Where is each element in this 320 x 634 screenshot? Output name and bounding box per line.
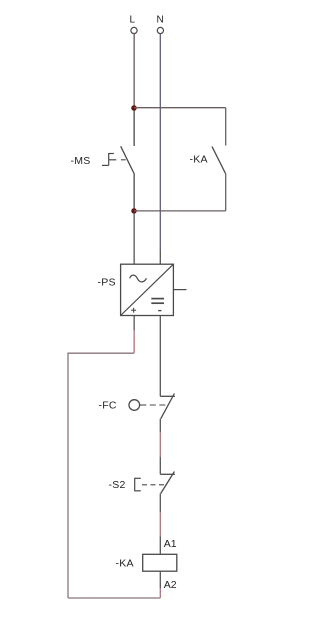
float switch -FC contact bar [160, 395, 175, 397]
switch -MS dashed link [121, 159, 126, 161]
svg-text:A1: A1 [164, 538, 177, 550]
contact -KA blade [212, 147, 226, 174]
svg-text:-KA: -KA [116, 558, 134, 570]
pushbutton -S2 top lead [159, 457, 161, 474]
svg-text:-S2: -S2 [109, 479, 126, 491]
junction node 2 [131, 208, 137, 214]
power supply -PS right stub [174, 289, 187, 291]
terminal N circle [157, 27, 163, 33]
svg-text:N: N [157, 15, 164, 26]
switch -MS contact [121, 111, 135, 209]
pushbutton -S2 bottom lead [159, 494, 161, 513]
power supply -PS minus sign [158, 310, 161, 312]
junction node 1 [131, 105, 137, 111]
coil -KA top lead [159, 537, 161, 555]
wire bottom horizontal [68, 597, 160, 599]
power supply -PS box [121, 264, 174, 315]
terminal L circle [131, 27, 137, 33]
pushbutton -S2 dashed link [142, 484, 164, 486]
svg-text:-FC: -FC [99, 400, 117, 412]
svg-text:-PS: -PS [98, 277, 116, 289]
power supply -PS plus sign [131, 308, 136, 313]
wire left rail vertical [67, 353, 69, 598]
wire L phase from terminal to junction [133, 34, 135, 107]
wire pushbutton to coil red [159, 512, 161, 537]
float switch -FC circle actuator [129, 400, 140, 411]
wire branch bottom horizontal [134, 210, 226, 212]
power supply -PS sine symbol [130, 275, 147, 282]
float switch -FC dashed link [150, 404, 167, 406]
power supply -PS diagonal [121, 264, 174, 315]
svg-text:-MS: -MS [71, 155, 91, 167]
wire N black lead into power supply [159, 250, 161, 264]
wire float switch to pushbutton red [159, 432, 161, 457]
svg-text:A2: A2 [164, 579, 177, 591]
wire negative output of power supply to float switch [159, 316, 161, 397]
wire positive red horizontal to left rail [67, 352, 134, 354]
pushbutton -S2 contact bar [160, 473, 175, 475]
wire branch top horizontal [134, 107, 226, 109]
wire branch right vertical upper [225, 108, 227, 146]
coil -KA box [143, 554, 177, 571]
wire branch right vertical lower [225, 174, 227, 211]
wire coil to bottom rail red [159, 588, 161, 598]
float switch -FC blade [161, 394, 175, 419]
pushbutton -S2 actuator bracket [135, 478, 141, 492]
wire N neutral from terminal to power supply [159, 34, 161, 250]
float switch -FC link solid segment [140, 404, 147, 406]
switch -MS manual actuator [102, 153, 116, 165]
wire positive lead below power supply [133, 316, 135, 331]
float switch -FC bottom lead [159, 419, 161, 432]
svg-text:L: L [130, 15, 136, 26]
pushbutton -S2 blade [161, 472, 175, 494]
power supply -PS DC symbol [151, 299, 164, 304]
coil -KA bottom lead [159, 571, 161, 588]
svg-text:-KA: -KA [190, 154, 208, 166]
wire L into power supply [133, 213, 135, 264]
wire positive red down [133, 330, 135, 353]
